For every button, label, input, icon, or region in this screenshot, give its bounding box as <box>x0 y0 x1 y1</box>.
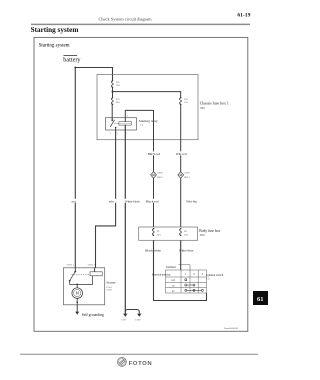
terminal leader <box>179 265 191 270</box>
starter mechanical link (dashed) <box>72 274 90 276</box>
ground self grounding <box>75 305 79 315</box>
wire battery main down (red) <box>74 68 76 268</box>
fuse F22 <box>111 80 113 88</box>
diagram frame <box>34 37 248 331</box>
starter motor M <box>72 284 83 304</box>
starter switch contact <box>69 268 77 285</box>
header rule <box>31 23 250 25</box>
svg-text:J802: J802 <box>200 234 206 237</box>
relay switch contact <box>110 118 116 130</box>
svg-text:2: 2 <box>193 273 195 276</box>
svg-text:61-19: 61-19 <box>237 13 250 19</box>
svg-text:C091: C091 <box>184 172 190 175</box>
svg-text:red: red <box>72 199 76 203</box>
svg-text:J 1: J 1 <box>140 124 144 127</box>
svg-text:C001 1: C001 1 <box>67 263 75 266</box>
starter box <box>64 268 105 305</box>
svg-text:Wht-blu: Wht-blu <box>186 199 197 203</box>
svg-text:Check System circuit diagram: Check System circuit diagram <box>98 17 152 22</box>
svg-text:Starting system: Starting system <box>31 26 79 34</box>
svg-text:Terminal: Terminal <box>166 266 176 269</box>
svg-text:ST: ST <box>172 290 175 293</box>
connector diamond C092 <box>151 172 164 179</box>
svg-text:Fotm2006013: Fotm2006013 <box>224 327 239 330</box>
svg-text:Function/position: Function/position <box>152 274 171 277</box>
svg-text:61: 61 <box>257 296 264 303</box>
switch contacts row On <box>185 284 195 286</box>
svg-text:1: 1 <box>185 273 187 276</box>
svg-text:Chassis fuse box 1: Chassis fuse box 1 <box>200 102 229 106</box>
svg-text:C001 1: C001 1 <box>88 263 96 266</box>
svg-text:C15: C15 <box>206 277 211 280</box>
chassis fuse box 1 outline <box>97 75 198 140</box>
svg-text:Black-red: Black-red <box>146 199 159 203</box>
svg-text:10A: 10A <box>157 233 162 236</box>
connector diamond C091 <box>178 172 191 179</box>
svg-text:1: 1 <box>126 133 127 135</box>
svg-text:G108: G108 <box>135 319 141 322</box>
svg-text:On: On <box>172 285 176 288</box>
svg-text:30A: 30A <box>116 101 120 104</box>
svg-text:5: 5 <box>117 133 119 135</box>
wire label Blk-red upper <box>147 151 161 156</box>
svg-text:J801: J801 <box>200 107 206 110</box>
svg-text:battery: battery <box>63 57 81 64</box>
wire branch to G108 <box>125 310 139 314</box>
svg-text:Self grounding: Self grounding <box>82 313 104 317</box>
svg-text:B012: B012 <box>157 176 163 179</box>
wire F23 to relay switch <box>111 104 113 120</box>
svg-text:15A: 15A <box>184 101 188 104</box>
svg-text:2: 2 <box>127 116 129 118</box>
wire label White-black <box>124 199 140 204</box>
fuse F2 <box>152 228 154 236</box>
starter solenoid coil <box>90 272 102 276</box>
ground G108 <box>137 314 141 317</box>
wire White-blue to ignition switch top <box>180 240 182 270</box>
wire coil feed to Blk-red column <box>125 110 153 227</box>
svg-text:M: M <box>76 291 80 295</box>
node feed junction <box>112 91 114 93</box>
svg-text:B011: B011 <box>184 176 190 179</box>
ignition switch table <box>166 270 207 293</box>
svg-text:Blk/Y-red: Blk/Y-red <box>148 152 161 156</box>
svg-text:30A: 30A <box>116 84 120 87</box>
svg-text:3: 3 <box>110 133 112 135</box>
wire label wht <box>108 199 116 204</box>
svg-text:FOTON: FOTON <box>129 361 153 367</box>
wire junction to F10 branch <box>113 92 181 98</box>
wire label Black-red <box>145 199 160 204</box>
wire battery to fuse feed <box>75 68 112 81</box>
wire relay output (wht) <box>96 130 116 268</box>
fuse F6 <box>180 228 182 236</box>
svg-text:C092: C092 <box>157 172 163 175</box>
node battery junction <box>74 67 76 69</box>
switch contacts row OFF <box>185 279 187 281</box>
body fuse box outline <box>139 227 198 240</box>
wire solenoid to motor node <box>77 276 92 285</box>
svg-text:OFF: OFF <box>171 279 176 282</box>
svg-text:Starting relay: Starting relay <box>139 119 158 123</box>
page tab 61 <box>253 291 268 305</box>
foton logo emblem <box>118 358 127 367</box>
wire fuse F22 to junction <box>112 87 114 97</box>
fuse F23 <box>111 97 113 105</box>
svg-text:G107: G107 <box>121 319 127 322</box>
svg-text:C002: C002 <box>107 289 113 292</box>
wire coil return (white-black) <box>124 125 126 314</box>
wire label Wht-blu <box>186 199 198 204</box>
relay box <box>106 118 137 130</box>
svg-text:Body fuse box: Body fuse box <box>199 229 220 233</box>
svg-text:Starting system: Starting system <box>39 43 70 48</box>
ground G107 <box>123 314 127 317</box>
footer rule <box>20 353 258 355</box>
svg-text:Starter: Starter <box>106 280 116 284</box>
svg-text:Wht-red: Wht-red <box>176 152 187 156</box>
svg-text:3: 3 <box>202 273 204 276</box>
wire label Wht-red upper <box>175 151 189 156</box>
wire label red <box>71 199 80 204</box>
svg-text:wht: wht <box>109 199 114 203</box>
relay coil <box>114 122 119 124</box>
svg-text:10A: 10A <box>184 233 189 236</box>
wire F10 down to body fuse box (Wht-red) <box>180 104 182 227</box>
svg-text:White-black: White-black <box>125 199 140 203</box>
fuse F10 <box>180 97 182 105</box>
switch contacts row ST <box>185 289 204 291</box>
battery terminal bar <box>64 54 78 56</box>
wire Black-white to ignition switch (L path) <box>154 240 207 300</box>
